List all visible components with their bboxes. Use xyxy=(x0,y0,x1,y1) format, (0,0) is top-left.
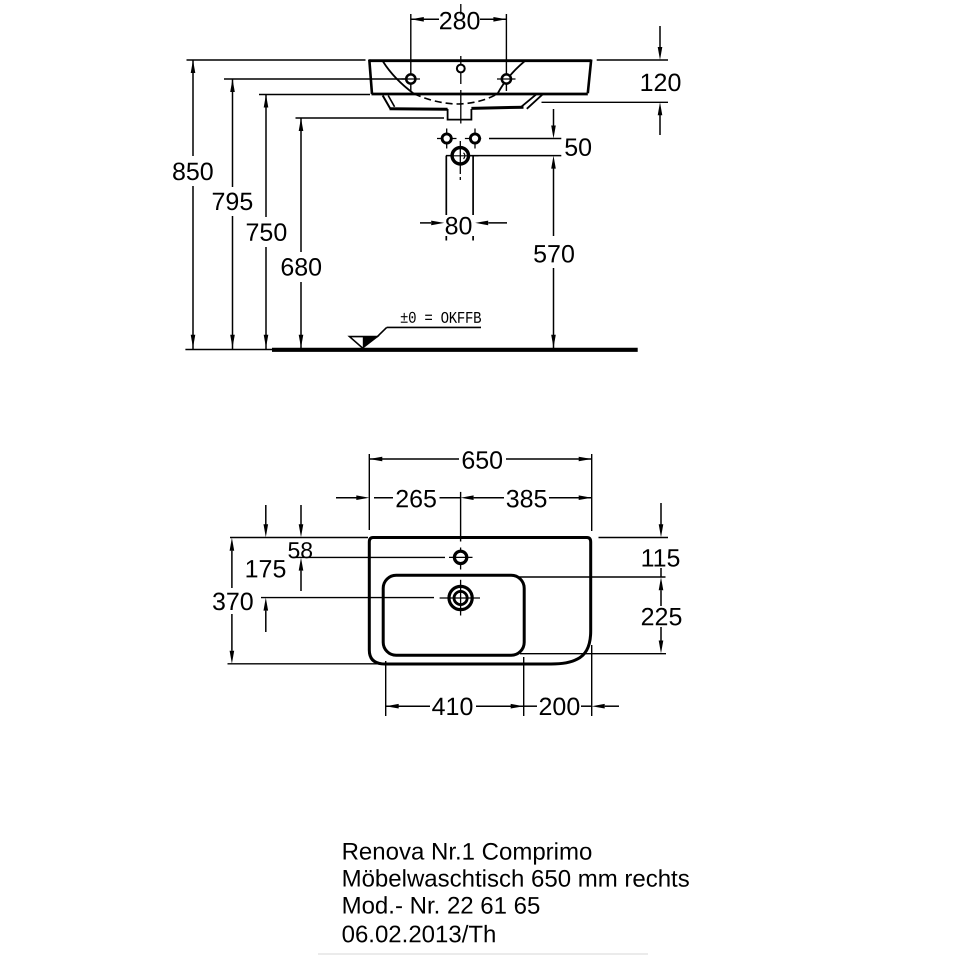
svg-text:Mod.- Nr. 22 61 65: Mod.- Nr. 22 61 65 xyxy=(342,893,541,920)
svg-text:680: 680 xyxy=(280,253,322,281)
svg-text:750: 750 xyxy=(246,219,288,247)
svg-text:120: 120 xyxy=(640,69,682,97)
svg-text:175: 175 xyxy=(245,555,287,583)
svg-text:280: 280 xyxy=(439,7,481,35)
svg-text:370: 370 xyxy=(212,588,254,616)
svg-text:410: 410 xyxy=(432,693,474,721)
svg-text:58: 58 xyxy=(288,537,314,563)
svg-text:Möbelwaschtisch 650 mm rechts: Möbelwaschtisch 650 mm rechts xyxy=(342,866,690,893)
svg-text:570: 570 xyxy=(533,240,575,268)
svg-text:265: 265 xyxy=(395,485,437,513)
svg-text:795: 795 xyxy=(212,188,254,216)
svg-text:385: 385 xyxy=(506,485,548,513)
svg-text:80: 80 xyxy=(445,212,473,240)
svg-text:Renova Nr.1 Comprimo: Renova Nr.1 Comprimo xyxy=(342,839,593,866)
svg-text:±0 = OKFFB: ±0 = OKFFB xyxy=(400,309,482,328)
svg-text:06.02.2013/Th: 06.02.2013/Th xyxy=(342,921,497,948)
svg-text:50: 50 xyxy=(564,134,592,162)
svg-text:200: 200 xyxy=(539,693,581,721)
svg-text:850: 850 xyxy=(172,158,214,186)
svg-text:650: 650 xyxy=(461,447,503,475)
